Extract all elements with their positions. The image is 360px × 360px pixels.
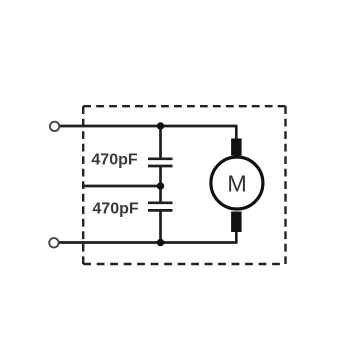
svg-text:470pF: 470pF bbox=[91, 151, 137, 168]
svg-text:470pF: 470pF bbox=[92, 200, 138, 217]
svg-text:M: M bbox=[227, 171, 247, 197]
